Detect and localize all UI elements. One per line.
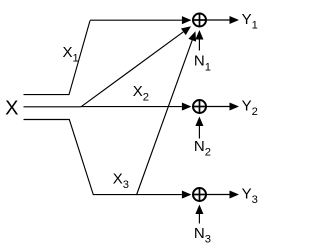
svg-text:X: X: [5, 98, 18, 120]
wire output arrow to Y3: [206, 190, 239, 198]
wire noise N1 arrow into adder U1: [195, 30, 203, 51]
wire output arrow to Y2: [206, 102, 239, 110]
wire output arrow to Y1: [206, 16, 239, 24]
wire noise N3 arrow into adder U3: [195, 205, 203, 224]
wire X fork bottom branch: [24, 120, 94, 196]
wire X3 with arrow into adder U3: [93, 191, 191, 199]
adder U1 (circle with plus): [193, 14, 206, 27]
wire noise N2 arrow into adder U2: [195, 117, 203, 139]
wire X2 diagonal with arrow into adder U1: [81, 26, 191, 107]
wire X fork top branch: [24, 21, 91, 95]
wire X3 diagonal with arrow into adder U1: [137, 31, 197, 195]
adder U3 (circle with plus): [193, 188, 206, 201]
wire X1 with arrow into adder U1: [90, 16, 191, 24]
wire X middle line: [24, 106, 82, 108]
adder U2 (circle with plus): [193, 100, 206, 113]
wire X2 with arrow into adder U2: [81, 103, 191, 111]
